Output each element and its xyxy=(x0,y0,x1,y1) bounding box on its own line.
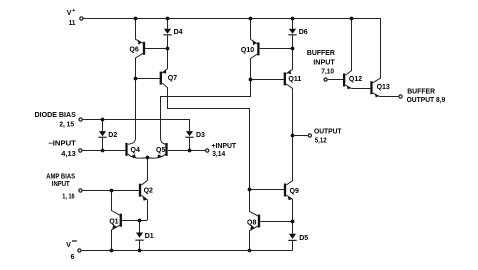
svg-text:Q7: Q7 xyxy=(168,75,177,82)
svg-text:Q4: Q4 xyxy=(131,147,140,154)
svg-text:1, 16: 1, 16 xyxy=(62,193,74,200)
svg-text:OUTPUT: OUTPUT xyxy=(314,128,342,135)
svg-text:D5: D5 xyxy=(299,235,308,242)
svg-text:Q2: Q2 xyxy=(144,187,153,194)
svg-text:DIODE BIAS: DIODE BIAS xyxy=(35,112,77,119)
svg-text:V: V xyxy=(67,10,72,17)
svg-text:Q11: Q11 xyxy=(288,76,301,83)
svg-text:AMP BIAS: AMP BIAS xyxy=(46,173,75,180)
svg-text:INPUT: INPUT xyxy=(52,181,70,188)
svg-text:Q6: Q6 xyxy=(129,46,138,53)
svg-text:Q5: Q5 xyxy=(156,147,165,154)
svg-text:Q10: Q10 xyxy=(241,47,254,54)
svg-text:INPUT: INPUT xyxy=(313,59,335,66)
svg-text:−INPUT: −INPUT xyxy=(48,140,76,147)
svg-text:5,12: 5,12 xyxy=(315,138,327,145)
svg-text:D2: D2 xyxy=(108,132,117,139)
svg-text:6: 6 xyxy=(71,254,75,261)
svg-text:Q9: Q9 xyxy=(290,188,299,195)
svg-text:11: 11 xyxy=(69,20,76,27)
svg-text:BUFFER: BUFFER xyxy=(407,89,435,96)
svg-text:7,10: 7,10 xyxy=(321,69,334,76)
svg-text:Q13: Q13 xyxy=(377,84,390,91)
svg-text:Q1: Q1 xyxy=(109,219,118,226)
svg-text:D6: D6 xyxy=(299,29,308,36)
svg-text:OUTPUT 8,9: OUTPUT 8,9 xyxy=(407,97,446,104)
svg-text:D4: D4 xyxy=(174,29,183,36)
svg-text:Q8: Q8 xyxy=(247,219,256,226)
svg-text:4,13: 4,13 xyxy=(61,151,76,158)
svg-text:D3: D3 xyxy=(196,132,205,139)
svg-text:2, 15: 2, 15 xyxy=(59,122,74,129)
svg-text:BUFFER: BUFFER xyxy=(307,50,335,57)
svg-text:+INPUT: +INPUT xyxy=(212,143,237,150)
svg-text:3,14: 3,14 xyxy=(212,151,225,158)
svg-text:V: V xyxy=(66,242,71,249)
svg-text:Q12: Q12 xyxy=(349,76,362,83)
svg-text:D1: D1 xyxy=(145,233,154,240)
